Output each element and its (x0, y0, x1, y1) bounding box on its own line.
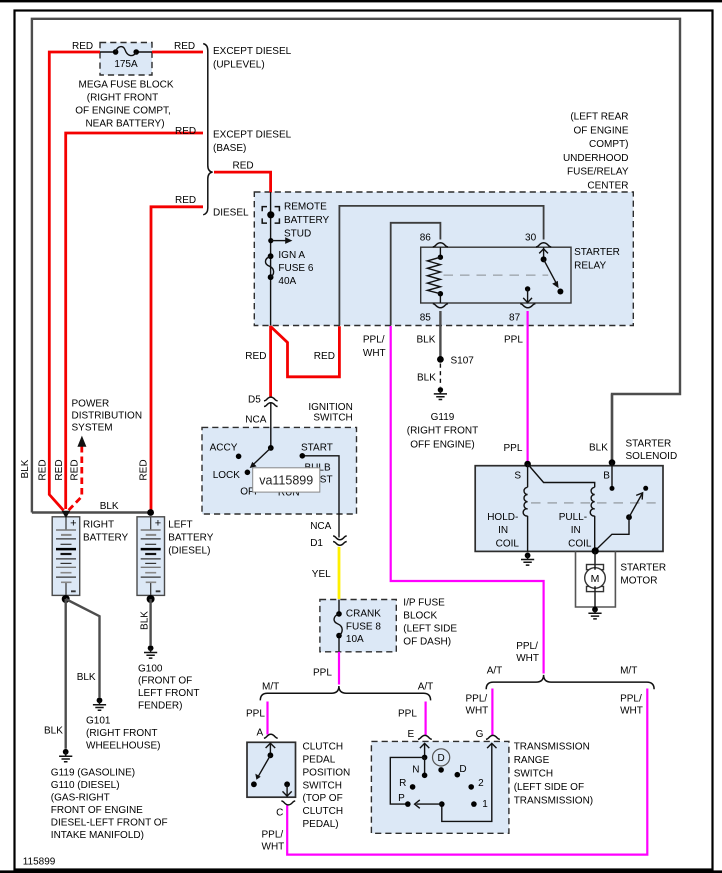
svg-text:(TOP OF: (TOP OF (303, 793, 343, 804)
wire RED base: battery to brace (66, 133, 203, 509)
relay terminal 86 connector arc (433, 243, 448, 247)
ground G100 (144, 645, 157, 658)
svg-text:STUD: STUD (284, 228, 311, 239)
right battery negative node (62, 595, 70, 603)
svg-text:RED: RED (72, 41, 93, 52)
solenoid mechanical link dashed (531, 502, 656, 504)
svg-text:REMOTE: REMOTE (284, 202, 327, 213)
left battery box (137, 517, 165, 596)
svg-text:TRANSMISSION): TRANSMISSION) (514, 795, 593, 806)
svg-text:OF ENGINE COMPT,: OF ENGINE COMPT, (75, 106, 171, 117)
svg-text:SWITCH: SWITCH (303, 780, 342, 791)
svg-text:115899: 115899 (23, 856, 56, 867)
wire ignition start to D1 (302, 456, 339, 538)
range switch D position circle (433, 749, 450, 766)
solenoid switch moving contact (595, 486, 648, 551)
relay contact 87 with arrow (523, 286, 532, 303)
svg-text:START: START (301, 443, 333, 454)
ground G119 right front off engine (434, 387, 447, 399)
svg-text:HOLD-: HOLD- (487, 512, 518, 523)
solenoid switch B contact (610, 463, 615, 491)
svg-text:A/T: A/T (418, 681, 434, 692)
transmission range switch box (371, 741, 509, 833)
wire BLK right battery to G119/G110 ground (64, 599, 66, 749)
solenoid S terminal node (524, 461, 531, 468)
svg-text:S: S (514, 471, 521, 482)
svg-text:(FRONT OF: (FRONT OF (138, 676, 192, 687)
svg-text:D: D (459, 764, 466, 775)
stud branch arrow node (268, 237, 292, 244)
svg-text:RED: RED (245, 351, 266, 362)
svg-text:+: + (70, 518, 76, 530)
ground G119/G110 (59, 749, 72, 762)
svg-text:G110 (DIESEL): G110 (DIESEL) (51, 780, 120, 791)
svg-text:BLK: BLK (140, 611, 151, 630)
svg-text:TRANSMISSION: TRANSMISSION (514, 741, 590, 752)
starter motor (585, 551, 606, 608)
svg-text:RELAY: RELAY (574, 261, 606, 272)
svg-text:(UPLEVEL): (UPLEVEL) (213, 59, 265, 70)
svg-text:IGN A: IGN A (278, 250, 305, 261)
wire RED dashed power distribution system (69, 446, 82, 510)
svg-text:G: G (476, 729, 484, 740)
svg-text:STARTER: STARTER (626, 439, 672, 450)
svg-text:D5: D5 (248, 395, 261, 406)
svg-text:A: A (257, 728, 264, 739)
svg-text:175A: 175A (114, 59, 138, 70)
svg-text:(LEFT REAR: (LEFT REAR (570, 112, 628, 123)
svg-text:INTAKE MANIFOLD): INTAKE MANIFOLD) (51, 830, 144, 841)
svg-text:WHEELHOUSE): WHEELHOUSE) (86, 741, 160, 752)
svg-text:POWER: POWER (72, 398, 110, 409)
svg-text:M: M (591, 573, 600, 585)
svg-text:PPL: PPL (313, 667, 332, 678)
svg-text:IGNITION: IGNITION (308, 402, 352, 413)
svg-text:86: 86 (420, 232, 432, 243)
svg-text:COIL: COIL (496, 539, 520, 550)
power distribution arrowhead (77, 436, 86, 447)
relay terminal 30 connector arc (536, 243, 551, 247)
svg-text:G119 (GASOLINE): G119 (GASOLINE) (51, 768, 135, 779)
svg-text:(LEFT SIDE: (LEFT SIDE (403, 624, 457, 635)
svg-text:A/T: A/T (487, 666, 503, 677)
fuse 175A in mega fuse block (100, 47, 152, 56)
svg-text:IN: IN (571, 525, 581, 536)
connector arc C clutch switch (281, 801, 295, 805)
svg-text:FRONT OF ENGINE: FRONT OF ENGINE (51, 805, 143, 816)
svg-text:EXCEPT DIESEL: EXCEPT DIESEL (213, 130, 292, 141)
wire BLK relay 85 to S107 (439, 311, 441, 358)
svg-text:M/T: M/T (262, 681, 279, 692)
svg-text:BLK: BLK (20, 459, 31, 478)
wire RED uplevel: battery to mega fuse to brace (49, 52, 203, 511)
motor ground (588, 607, 601, 619)
relay mechanical link dashed (444, 274, 549, 276)
wire BLK solenoid B drop (611, 394, 613, 461)
svg-text:E: E (408, 729, 415, 740)
svg-text:BLK: BLK (100, 501, 119, 512)
svg-text:RANGE: RANGE (514, 755, 550, 766)
svg-text:RED: RED (174, 41, 195, 52)
svg-text:C: C (276, 808, 283, 819)
brace M/T A/T below crank fuse (260, 686, 430, 700)
svg-text:YEL: YEL (312, 569, 331, 580)
svg-text:PPL: PPL (504, 335, 523, 346)
svg-text:ACCY: ACCY (210, 443, 238, 454)
solenoid to motor junction (592, 547, 599, 554)
svg-text:BLK: BLK (44, 726, 63, 737)
svg-text:OF ENGINE: OF ENGINE (573, 125, 628, 136)
right battery cell plates (56, 518, 76, 596)
svg-text:R: R (399, 778, 406, 789)
svg-text:FUSE/RELAY: FUSE/RELAY (567, 167, 629, 178)
svg-text:PPL/: PPL/ (516, 641, 538, 652)
svg-text:BATTERY: BATTERY (284, 215, 330, 226)
svg-text:B: B (603, 471, 610, 482)
svg-text:RIGHT: RIGHT (83, 520, 114, 531)
svg-text:FUSE 6: FUSE 6 (278, 263, 313, 274)
connector arc G range switch (486, 735, 500, 739)
wire PPL/WHT A/T branch to range switch G (491, 689, 493, 736)
relay switch contact 30 (539, 247, 563, 294)
mega fuse block box (100, 43, 152, 76)
svg-text:SWITCH: SWITCH (514, 768, 553, 779)
connector D1 (333, 536, 347, 545)
svg-text:BLK: BLK (589, 443, 608, 454)
svg-text:(BASE): (BASE) (213, 143, 246, 154)
wire BLK battery cable: left battery to solenoid B via page perimeter (32, 19, 680, 513)
svg-text:G119: G119 (431, 412, 455, 423)
wire relay 30 feed inside underhood box (339, 206, 543, 326)
wire RED brace output to remote battery stud (214, 172, 271, 192)
wire RED diesel: left battery to brace (151, 207, 203, 511)
wire BLK left battery to G100 ground (149, 599, 151, 645)
left battery cell plates (141, 518, 161, 596)
svg-text:BLK: BLK (417, 373, 436, 384)
starter solenoid box (475, 466, 663, 552)
svg-text:COMPT): COMPT) (589, 139, 628, 150)
splice S107 (437, 356, 444, 363)
svg-text:UNDERHOOD: UNDERHOOD (563, 153, 629, 164)
svg-text:RED: RED (314, 351, 335, 362)
svg-text:EXCEPT DIESEL: EXCEPT DIESEL (213, 46, 292, 57)
svg-text:PPL: PPL (504, 443, 523, 454)
svg-text:RED: RED (69, 459, 80, 480)
svg-text:(RIGHT FRONT: (RIGHT FRONT (87, 93, 158, 104)
fuse CRANK FUSE 8 10A (334, 611, 342, 638)
wire BLK dashed S107 to ground (439, 364, 441, 387)
wire RED ign a fuse to D5 connector (269, 326, 272, 397)
solenoid B terminal node (609, 459, 616, 466)
svg-text:30: 30 (525, 232, 537, 243)
svg-text:CLUTCH: CLUTCH (303, 742, 344, 753)
wire PPL/WHT relay 86 to A/T-M/T brace (391, 326, 544, 674)
wire PPL/WHT M/T branch to clutch switch C via bottom run (287, 689, 647, 855)
svg-text:D: D (437, 753, 444, 764)
svg-text:P: P (398, 793, 405, 804)
svg-text:PPL/: PPL/ (466, 694, 488, 705)
solenoid ground under hold-in coil (521, 553, 534, 566)
solenoid hold-in coil (523, 464, 527, 552)
relay terminal 85 connector arc (433, 304, 448, 308)
ground G101 (93, 697, 106, 710)
svg-text:LOCK: LOCK (213, 470, 241, 481)
ignition switch box (202, 427, 357, 514)
svg-text:(GAS-RIGHT: (GAS-RIGHT (51, 793, 110, 804)
relay terminal 87 connector arc (520, 304, 535, 308)
svg-text:IN: IN (498, 525, 508, 536)
svg-text:N: N (412, 765, 419, 776)
svg-text:CENTER: CENTER (587, 181, 628, 192)
battery feed arrowhead (62, 511, 71, 518)
left battery top node (147, 509, 154, 516)
svg-text:STARTER: STARTER (620, 563, 666, 574)
svg-text:SOLENOID: SOLENOID (626, 451, 678, 462)
wire PPL crank fuse to M/T-A/T brace (338, 652, 340, 685)
svg-text:RED: RED (175, 126, 196, 137)
svg-text:COIL: COIL (568, 539, 592, 550)
svg-text:RED: RED (175, 195, 196, 206)
svg-text:NCA: NCA (310, 521, 331, 532)
svg-text:PULL-: PULL- (559, 512, 587, 523)
svg-text:SYSTEM: SYSTEM (72, 423, 113, 434)
starter motor enclosure (576, 551, 616, 607)
svg-text:PPL/: PPL/ (363, 335, 385, 346)
relay coil between 86 and 85 (427, 247, 443, 303)
starter relay box (421, 247, 571, 303)
svg-text:OFF ENGINE): OFF ENGINE) (410, 439, 474, 450)
svg-text:M/T: M/T (620, 666, 637, 677)
svg-text:RED: RED (139, 459, 150, 480)
ignition switch contacts and lever (236, 445, 305, 475)
svg-text:NCA: NCA (245, 414, 266, 425)
wire crank fuse leads inside i/p fuse block (338, 600, 340, 652)
svg-text:va115899: va115899 (259, 473, 313, 487)
wire YEL D1 to crank fuse 8 (338, 547, 341, 599)
svg-text:POSITION: POSITION (303, 767, 351, 778)
range switch internal E leg (390, 743, 429, 804)
wire PPL M/T branch to clutch switch A (266, 702, 268, 735)
wire BLK right battery to G101 ground (66, 599, 100, 697)
svg-text:2: 2 (478, 778, 484, 789)
svg-text:BATTERY: BATTERY (168, 533, 214, 544)
wire PPL A/T branch to range switch E (425, 702, 427, 736)
svg-text:(RIGHT FRONT: (RIGHT FRONT (407, 426, 478, 437)
brace A/T M/T right side (486, 675, 654, 689)
svg-text:1: 1 (482, 799, 488, 810)
svg-text:MEGA FUSE BLOCK: MEGA FUSE BLOCK (78, 80, 173, 91)
fuse IGN A FUSE 6 40A (265, 253, 273, 280)
svg-text:SWITCH: SWITCH (313, 412, 352, 423)
svg-text:DIESEL-LEFT FRONT OF: DIESEL-LEFT FRONT OF (51, 818, 168, 829)
wire BLK stud and ign a fuse line inside underhood box (270, 192, 272, 326)
range switch position contacts (405, 767, 477, 807)
svg-text:(LEFT SIDE OF: (LEFT SIDE OF (514, 782, 584, 793)
svg-text:BLK: BLK (77, 672, 96, 683)
svg-text:RED: RED (233, 160, 254, 171)
clutch switch internals (251, 743, 292, 796)
svg-text:BLOCK: BLOCK (403, 611, 437, 622)
svg-text:PPL: PPL (246, 709, 265, 720)
svg-text:LEFT: LEFT (168, 520, 192, 531)
svg-text:DISTRIBUTION: DISTRIBUTION (72, 410, 143, 421)
svg-text:WHT: WHT (466, 706, 489, 717)
svg-text:BATTERY: BATTERY (83, 533, 129, 544)
wire RED jog fuse output to relay 30 feed (271, 326, 340, 377)
solenoid pull-in coil fed from S (528, 464, 595, 549)
svg-text:G100: G100 (138, 663, 163, 674)
svg-text:85: 85 (420, 313, 432, 324)
svg-text:I/P FUSE: I/P FUSE (403, 598, 445, 609)
svg-text:PPL/: PPL/ (262, 830, 284, 841)
svg-text:(DIESEL): (DIESEL) (168, 546, 210, 557)
svg-text:87: 87 (509, 313, 521, 324)
svg-text:FUSE 8: FUSE 8 (346, 621, 381, 632)
svg-text:WHT: WHT (262, 842, 285, 853)
svg-text:WHT: WHT (516, 653, 539, 664)
svg-text:PPL/: PPL/ (620, 694, 642, 705)
svg-text:RED: RED (38, 459, 49, 480)
wire PPL relay 87 to solenoid S (526, 311, 528, 462)
svg-text:CRANK: CRANK (346, 608, 381, 619)
svg-text:D1: D1 (310, 538, 323, 549)
svg-text:(RIGHT FRONT: (RIGHT FRONT (86, 728, 157, 739)
svg-text:BLK: BLK (417, 335, 436, 346)
svg-text:STARTER: STARTER (574, 247, 620, 258)
wire BLK battery top bus (32, 511, 151, 513)
svg-text:FENDER): FENDER) (138, 701, 182, 712)
svg-text:10A: 10A (346, 634, 364, 645)
svg-text:S107: S107 (451, 356, 475, 367)
connector arc E range switch (418, 735, 432, 739)
svg-text:DIESEL: DIESEL (213, 208, 249, 219)
page bottom edge line (0, 870, 722, 873)
svg-text:NEAR BATTERY): NEAR BATTERY) (85, 119, 164, 130)
svg-text:G101: G101 (86, 715, 111, 726)
svg-text:LEFT FRONT: LEFT FRONT (138, 688, 199, 699)
watermark va115899 box (253, 468, 320, 492)
svg-text:WHT: WHT (363, 348, 386, 359)
svg-text:PPL: PPL (398, 709, 417, 720)
svg-text:40A: 40A (278, 276, 296, 287)
right battery box (52, 517, 79, 596)
brace merge three red feeds top left (203, 44, 212, 215)
svg-text:MOTOR: MOTOR (620, 576, 657, 587)
remote battery stud symbol (262, 207, 279, 224)
svg-text:OF DASH): OF DASH) (403, 637, 451, 648)
range switch internal G leg (415, 743, 497, 821)
left battery negative node (147, 595, 155, 603)
svg-text:+: + (155, 518, 161, 530)
clutch pedal position switch box (247, 742, 296, 797)
svg-text:RED: RED (54, 459, 65, 480)
svg-text:WHT: WHT (620, 706, 643, 717)
svg-text:PEDAL: PEDAL (303, 755, 336, 766)
svg-text:CLUTCH: CLUTCH (303, 806, 344, 817)
page top edge line (0, 0, 722, 2)
underhood fuse/relay center box (254, 192, 633, 326)
i/p fuse block box (320, 600, 396, 652)
wire relay 86 feed inside underhood box (391, 223, 441, 326)
wire D5 black to ignition switch pivot (270, 403, 272, 446)
svg-text:PEDAL): PEDAL) (303, 819, 339, 830)
connector arc A clutch switch (264, 734, 278, 738)
connector D5 (264, 397, 278, 406)
